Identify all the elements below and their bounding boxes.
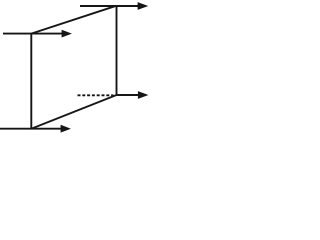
parallelogram bottom slanted edge xyxy=(31,95,116,129)
right velocity arrow xyxy=(117,91,149,99)
parallelogram right edge xyxy=(116,6,118,95)
bottom velocity arrow xyxy=(0,125,71,133)
dashed reference line xyxy=(78,94,114,96)
parallelogram top slanted edge xyxy=(31,6,115,33)
parallelogram left edge xyxy=(30,34,32,129)
top velocity arrow xyxy=(80,2,148,10)
left velocity arrow xyxy=(3,30,72,38)
